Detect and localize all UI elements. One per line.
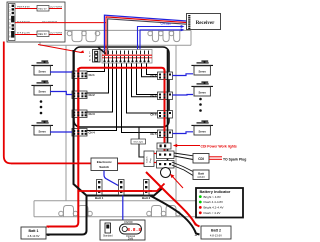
svg-text:OUT 4.8-13.6V: OUT 4.8-13.6V: [42, 21, 58, 23]
svg-text:CH 6: CH 6: [150, 113, 157, 117]
svg-text:CH 3: CH 3: [89, 112, 96, 116]
svg-text:Switch: Switch: [146, 156, 149, 163]
svg-text:TO Spark Plug: TO Spark Plug: [223, 157, 246, 161]
svg-text:Work light: Work light: [133, 141, 143, 144]
svg-text:4.8-6V: 4.8-6V: [197, 175, 205, 179]
svg-text:CDI: CDI: [198, 157, 204, 161]
svg-text:Servo: Servo: [198, 69, 206, 73]
svg-text:Batt 1: Batt 1: [29, 229, 39, 233]
svg-text:Battery Indicator: Battery Indicator: [200, 189, 231, 194]
svg-text:Bright 4.2-4.4V: Bright 4.2-4.4V: [204, 206, 224, 210]
svg-text:CH 1: CH 1: [89, 73, 96, 77]
svg-text:−: −: [47, 233, 50, 238]
svg-text:IN 4.8-13.6V: IN 4.8-13.6V: [17, 33, 30, 35]
svg-text:Flash 4.4-4.8V: Flash 4.4-4.8V: [204, 200, 224, 204]
svg-text:PWR 4.8-6V: PWR 4.8-6V: [17, 7, 30, 9]
svg-text:OUT 4.8-6V: OUT 4.8-6V: [50, 7, 63, 9]
svg-text:IN 4.8-13.6V: IN 4.8-13.6V: [17, 21, 30, 23]
svg-text:CH 5&6: CH 5&6: [161, 22, 172, 26]
svg-text:Receiver: Receiver: [196, 21, 215, 26]
svg-text:Batt: Batt: [198, 171, 204, 175]
svg-text:Servo: Servo: [198, 90, 206, 94]
svg-text:OUT 4.8-6V: OUT 4.8-6V: [50, 33, 63, 35]
svg-text:8.8.8: 8.8.8: [127, 227, 141, 233]
svg-text:+: +: [195, 222, 198, 227]
svg-text:Servo: Servo: [38, 69, 46, 73]
svg-text:Batt 2: Batt 2: [211, 229, 221, 233]
svg-text:CH 5: CH 5: [150, 132, 157, 136]
svg-text:Batt 2: Batt 2: [142, 196, 151, 200]
svg-text:+: +: [47, 225, 50, 230]
svg-text:CH 2: CH 2: [89, 93, 96, 97]
svg-text:Electronic: Electronic: [97, 160, 112, 164]
svg-text:ON/OFF: ON/OFF: [124, 221, 134, 224]
svg-text:CDI Power Work lights: CDI Power Work lights: [201, 144, 237, 148]
svg-text:Bright > 4.8V: Bright > 4.8V: [204, 195, 221, 199]
svg-text:REG 6V: REG 6V: [38, 34, 47, 36]
svg-text:Servo: Servo: [198, 129, 206, 133]
svg-text:Plug: Plug: [150, 158, 152, 163]
svg-text:Batt 1: Batt 1: [95, 196, 104, 200]
svg-text:Switch: Switch: [99, 165, 109, 169]
svg-text:Servo: Servo: [38, 129, 46, 133]
svg-text:CH 7: CH 7: [150, 94, 157, 98]
svg-text:REG 6V: REG 6V: [38, 8, 47, 10]
svg-text:Flash < 4.2V: Flash < 4.2V: [204, 211, 221, 215]
svg-text:4.8-13.6V: 4.8-13.6V: [210, 233, 222, 237]
svg-text:Standard: Standard: [103, 235, 113, 238]
svg-text:4.8-13.6V: 4.8-13.6V: [27, 234, 39, 238]
svg-text:−: −: [195, 233, 198, 238]
svg-text:Servo: Servo: [38, 89, 46, 93]
svg-text:DVM: DVM: [128, 238, 133, 241]
svg-text:CH 4: CH 4: [89, 131, 96, 135]
svg-text:CH 8: CH 8: [150, 74, 157, 78]
